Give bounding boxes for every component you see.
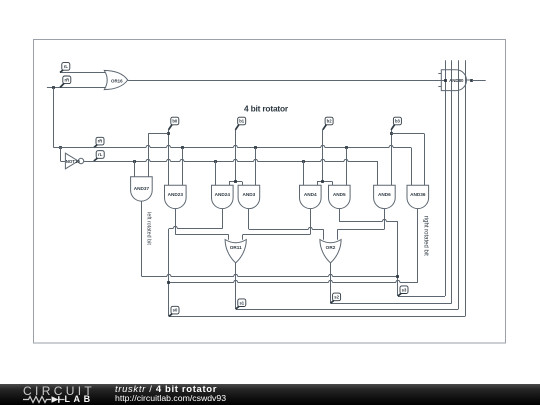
junction b2 bridge xyxy=(321,180,324,183)
wire rL tap to AND4 left input xyxy=(302,160,305,163)
junction b1 bridge xyxy=(234,180,237,183)
wire b3 vertical to AND6 right input xyxy=(391,130,393,185)
AND gate AND23 xyxy=(165,185,187,208)
svg-text:4 bit rotator: 4 bit rotator xyxy=(244,104,289,114)
wire AND36 output down xyxy=(417,209,419,283)
svg-text:b0: b0 xyxy=(172,119,178,124)
svg-text:rR: rR xyxy=(64,77,69,82)
CircuitLab logo LAB xyxy=(65,395,94,404)
svg-text:s0: s0 xyxy=(173,308,178,313)
svg-text:s1: s1 xyxy=(239,300,244,305)
wire rR tap to AND23 right input xyxy=(181,146,184,149)
node s1 flag s1 xyxy=(236,299,246,309)
wire rR bus corner down to AND36 left input xyxy=(411,148,413,186)
junction left bus top xyxy=(52,86,55,89)
junction s0 net on AND24 vertical xyxy=(167,281,170,284)
junction b0 jog xyxy=(167,132,170,135)
node rR flag rR1 xyxy=(60,76,71,88)
wire s1 run xyxy=(236,309,459,311)
wire s0 run xyxy=(169,316,465,318)
wire s2 run xyxy=(331,303,452,305)
wire b1 vertical to bridge xyxy=(235,130,237,182)
svg-text:NOT10: NOT10 xyxy=(66,159,81,164)
wire AND37 net bottom xyxy=(141,275,398,277)
wire OR2 output down to s2 xyxy=(330,263,332,303)
junction OR16 output on s3 riser xyxy=(444,79,447,82)
wire s3 run xyxy=(398,296,445,298)
node b3 flag b3 xyxy=(391,117,401,130)
svg-text:AND80: AND80 xyxy=(449,78,464,83)
svg-text:AND24: AND24 xyxy=(215,192,231,197)
svg-text:OR2: OR2 xyxy=(326,245,336,250)
wire b0 jog to AND37 right input xyxy=(148,133,168,135)
svg-text:AND6: AND6 xyxy=(378,192,391,197)
wire AND80 output xyxy=(467,79,470,81)
svg-text:b1: b1 xyxy=(239,119,245,124)
wire rR tap to AND5 right input xyxy=(345,146,348,149)
wire b3 jog to AND36 right input xyxy=(391,133,424,135)
wire AND4 output to OR11 right input xyxy=(310,209,312,235)
wire rR tap to AND3 right input xyxy=(254,146,257,149)
node b0 flag b0 xyxy=(169,117,179,130)
wire OR16 input 2 (rR) xyxy=(47,87,110,89)
node s0 flag s0 xyxy=(169,306,179,316)
wire AND6 output to OR2 right input xyxy=(384,209,386,230)
wire OR16 input 1 (rL) xyxy=(60,72,110,74)
node s3 flag s3 xyxy=(398,286,408,296)
wire rR bus xyxy=(54,146,412,148)
CircuitLab logo CIRCUIT xyxy=(23,386,113,396)
node b1 flag b1 xyxy=(235,117,245,130)
wire b0 vertical to AND23 left input xyxy=(168,130,170,185)
wire left vertical bus xyxy=(53,88,55,148)
OR gate OR2 xyxy=(320,240,341,263)
wire AND3 output to OR2 left input xyxy=(248,209,250,230)
AND gate AND4 xyxy=(300,185,322,208)
svg-text:AND4: AND4 xyxy=(304,192,317,197)
wire rL bus (NOT output) xyxy=(84,160,378,162)
svg-text:OR11: OR11 xyxy=(230,245,242,250)
wire OR11 output down to s1 xyxy=(235,263,237,309)
or-gate OR16 xyxy=(104,70,127,89)
wire s0 net bottom xyxy=(169,281,418,283)
svg-text:rR: rR xyxy=(98,139,103,144)
footer url line xyxy=(115,394,226,403)
svg-text:left rotated bit: left rotated bit xyxy=(146,212,152,245)
svg-text:AND3: AND3 xyxy=(243,192,256,197)
OR gate OR11 xyxy=(225,240,246,263)
AND gate AND37 xyxy=(131,177,153,201)
svg-text:AND23: AND23 xyxy=(168,192,184,197)
inverter NOT10 xyxy=(65,153,83,169)
svg-text:rL: rL xyxy=(98,152,103,157)
wire AND37 output down xyxy=(141,201,143,276)
svg-text:rL: rL xyxy=(64,64,69,69)
wire rL tap to AND37 left input xyxy=(133,160,136,163)
svg-text:right rotated bit: right rotated bit xyxy=(423,216,429,256)
svg-text:AND36: AND36 xyxy=(410,192,426,197)
node b2 flag b2 xyxy=(323,117,333,130)
AND gate AND36 xyxy=(407,185,429,208)
svg-text:AND5: AND5 xyxy=(333,192,346,197)
svg-text:b3: b3 xyxy=(395,119,401,124)
wire rL bus corner down to AND6 left input xyxy=(377,161,379,185)
wire AND5 output net xyxy=(339,209,341,222)
svg-text:s2: s2 xyxy=(334,295,339,300)
wire OR16 output to AND80 xyxy=(128,80,445,82)
wire rL tap to AND24 left input xyxy=(214,160,217,163)
wire b2 vertical to bridge xyxy=(322,130,324,182)
wire AND24 output net xyxy=(222,209,224,229)
svg-text:AND37: AND37 xyxy=(134,186,150,191)
node rL flag rL2 xyxy=(94,151,104,161)
svg-text:OR16: OR16 xyxy=(111,78,123,83)
junction AND37 net to AND5 vertical xyxy=(396,275,399,278)
svg-text:s3: s3 xyxy=(402,287,407,292)
wire AND23 output to OR11 left input xyxy=(175,209,177,235)
AND gate AND24 xyxy=(212,185,234,208)
AND gate AND80 xyxy=(441,70,466,91)
node s2 flag s2 xyxy=(331,293,341,303)
junction b3 jog xyxy=(390,132,393,135)
AND gate AND6 xyxy=(374,185,396,208)
footer title line xyxy=(115,385,217,395)
CircuitLab logo resistor and diode xyxy=(23,395,67,404)
wire b1 bridge AND24/AND3 xyxy=(229,181,242,183)
AND gate AND5 xyxy=(329,185,351,208)
svg-text:b2: b2 xyxy=(327,119,333,124)
wire AND80 input stubs xyxy=(438,73,441,75)
schematic border frame xyxy=(34,40,506,344)
node rL flag rL1 xyxy=(60,63,70,73)
wire NOT10 input xyxy=(59,146,62,149)
wire b2 bridge AND4/AND5 xyxy=(317,181,333,183)
node rR flag rR2 xyxy=(94,137,104,147)
AND gate AND3 xyxy=(238,185,260,208)
